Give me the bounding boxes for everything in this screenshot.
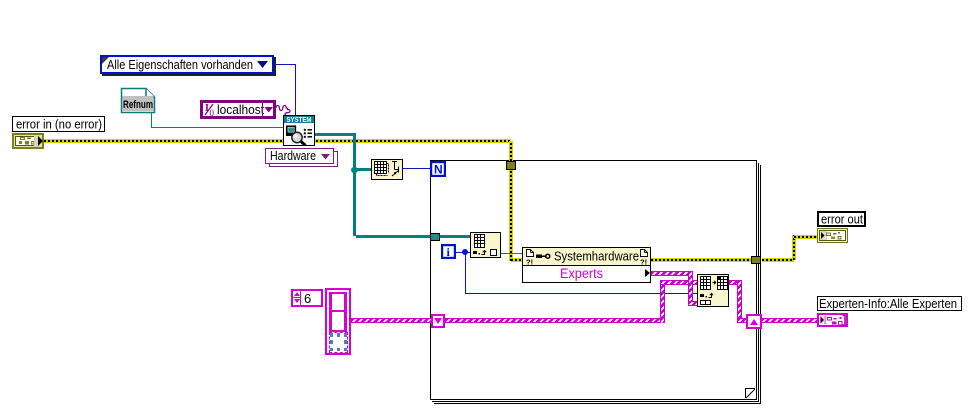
wire refnum to SYSTEM node, vertical segment — [151, 112, 152, 127]
I/O combo box constant localhost — [200, 100, 276, 119]
cluster constant Experten-Info — [325, 288, 351, 355]
wire SYSTEM output refnum array, vertical segment — [353, 133, 356, 236]
error wire tunnel on for loop top border — [506, 161, 516, 170]
svg-text:Alle Eigenschaften vorhanden: Alle Eigenschaften vorhanden — [107, 57, 253, 72]
error wire tunnel on for loop right border — [751, 256, 761, 264]
wire branch to Array Size — [356, 168, 371, 171]
svg-text:SYSTEM: SYSTEM — [287, 117, 312, 124]
cluster wire tunnel to Build Array, vertical segment — [660, 280, 665, 323]
Open System Configuration node SYSTEM — [283, 115, 315, 146]
wire i junction dot — [462, 249, 468, 255]
Index Array function node — [470, 232, 501, 258]
svg-text:N: N — [434, 163, 443, 177]
refnum constant — [120, 87, 156, 114]
cluster wire into right tunnel — [737, 318, 747, 323]
svg-text:?!: ?! — [526, 258, 533, 266]
property node Systemhardware / Experts — [522, 247, 651, 283]
indicator terminal error out — [817, 228, 849, 244]
Array Size function node — [371, 159, 403, 180]
for loop iteration terminal i — [441, 244, 456, 259]
wire Index Array output refnum to property node — [501, 253, 522, 254]
cluster wire tunnel to Build Array, horizontal segment — [445, 318, 665, 323]
wire SYSTEM output refnum array, horizontal segment — [315, 133, 356, 136]
wire localhost to SYSTEM node (coiled) — [276, 103, 292, 117]
wire ring constant to SYSTEM node, vertical segment — [295, 64, 296, 116]
cluster wire into Build Array lower input — [688, 301, 698, 306]
cluster wire tunnel to Experten-Info indicator — [761, 318, 817, 323]
error wire, vertical segment into for loop — [509, 141, 513, 261]
label error out — [817, 211, 866, 227]
svg-text:?!: ?! — [640, 258, 647, 266]
svg-text:Refnum: Refnum — [123, 99, 153, 111]
cluster wire from cluster constant to loop tunnel — [351, 318, 432, 323]
error wire, horizontal segment into error out terminal — [794, 235, 818, 239]
control terminal error in — [12, 133, 44, 149]
svg-text:Experts: Experts — [560, 266, 603, 281]
svg-text:error out: error out — [821, 213, 863, 225]
wire i terminal to Index Array — [456, 252, 470, 253]
numeric constant 6 — [291, 289, 323, 307]
for loop stacked frame line 3 — [434, 165, 761, 404]
cluster wire Build Array output, vertical segment — [737, 280, 742, 323]
cluster wire into Build Array upper input — [660, 280, 698, 285]
error wire, vertical segment up to error out — [792, 235, 796, 260]
wire i branch to Build Array, horizontal segment — [465, 293, 697, 294]
combo box constant Hardware — [265, 148, 334, 164]
error wire, horizontal segment into property node — [511, 258, 522, 262]
for loop auto-index input tunnel (down arrow) — [431, 314, 445, 328]
wire i branch, vertical segment — [465, 252, 466, 294]
indicator terminal Experten-Info:Alle Experten — [817, 313, 849, 328]
wire refnum array into for loop tunnel — [356, 235, 431, 238]
svg-text:error in (no error): error in (no error) — [16, 118, 102, 132]
for loop count terminal N — [430, 161, 446, 177]
for loop stacked frame line 2 — [432, 163, 759, 402]
combo box constant Hardware, shadow — [269, 151, 338, 167]
error wire, horizontal segment from error in terminal — [44, 139, 511, 143]
error wire, horizontal segment from property node to right tunnel — [651, 258, 751, 262]
ring constant "Alle Eigenschaften vorhanden" — [100, 55, 274, 74]
svg-text:0: 0 — [210, 108, 215, 116]
for loop auto-index output tunnel (up arrow) — [746, 314, 762, 329]
for loop resize corner glyph — [745, 388, 756, 399]
wire refnum to SYSTEM node, horizontal segment — [151, 127, 283, 128]
svg-text:Hardware: Hardware — [270, 149, 316, 162]
cluster wire Experts output, vertical segment — [688, 271, 693, 305]
svg-text:Systemhardware: Systemhardware — [554, 249, 639, 264]
label error in (no error) — [12, 116, 105, 132]
error wire, horizontal segment after right tunnel — [762, 258, 794, 262]
wire ring constant to SYSTEM node, horizontal segment — [274, 64, 296, 65]
for loop main border — [430, 160, 757, 400]
refnum array tunnel on for loop left border — [430, 233, 440, 241]
Build Array function node — [697, 274, 729, 307]
cluster wire Experts output, horizontal segment — [651, 271, 692, 276]
wire junction dot — [351, 167, 358, 173]
wire Array Size to N count terminal — [403, 168, 430, 169]
svg-text:localhost: localhost — [217, 103, 264, 116]
label Experten-Info:Alle Experten — [817, 296, 962, 311]
svg-text:Experten-Info:Alle Experten: Experten-Info:Alle Experten — [819, 297, 957, 310]
cluster wire Build Array output, horizontal segment — [729, 280, 741, 285]
